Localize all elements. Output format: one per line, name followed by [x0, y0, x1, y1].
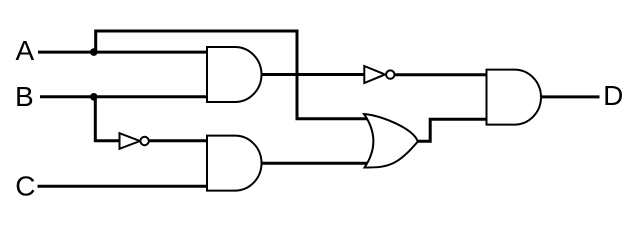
- wire B input to AND1: [40, 95, 211, 98]
- svg-text:D: D: [603, 80, 623, 111]
- node junction dot on B: [90, 93, 98, 101]
- wire AND1 output to NOT1: [260, 73, 366, 76]
- svg-text:C: C: [15, 170, 35, 201]
- wire AND3 output to D: [540, 95, 600, 98]
- inverter NOT2 bubble: [140, 137, 148, 145]
- node junction dot on A: [90, 48, 98, 56]
- inverter NOT1 bubble: [386, 70, 394, 78]
- wire OR output to AND3 bottom input: [417, 119, 489, 141]
- wire B branch down to NOT2 input: [95, 97, 123, 141]
- inverter NOT2 (on B branch): [120, 133, 141, 149]
- wire A branch over top rail down to OR top input: [96, 31, 372, 119]
- and-gate U4 (output D): [487, 70, 542, 125]
- or-gate U3: [364, 114, 418, 168]
- and-gate U2 (inputs NOT-B, C): [207, 136, 262, 191]
- svg-text:A: A: [16, 35, 35, 66]
- wire NOT1 output to AND3 top input: [395, 73, 490, 76]
- wire A input to AND1: [38, 51, 211, 54]
- wire AND2 output to OR bottom input: [260, 162, 372, 165]
- wire NOT2 output to AND2: [149, 139, 212, 142]
- svg-text:B: B: [15, 81, 34, 112]
- inverter NOT1 (on AND1 output): [364, 66, 385, 83]
- and-gate U1 (inputs A,B): [207, 47, 261, 102]
- wire C input to AND2: [38, 185, 212, 188]
